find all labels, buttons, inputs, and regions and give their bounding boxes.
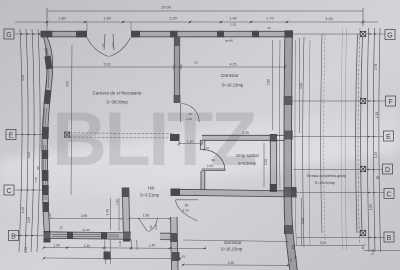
hol east wall lower: [171, 217, 179, 270]
interior vertical dim line 4.05: [71, 45, 72, 195]
south wall: [44, 232, 171, 240]
north wall outline: [41, 31, 293, 37]
terrace corner columns: [360, 31, 365, 235]
grup sanitar stub wall 15: [200, 140, 205, 149]
left column tick dots: [20, 33, 376, 238]
5.50 vertical dim: [301, 198, 303, 245]
left axis letter boxes: [4, 29, 19, 241]
fold light band: [0, 98, 400, 214]
north wall window glazing lines: [53, 33, 252, 35]
row E wall fill: [202, 135, 277, 140]
grup sanitar door: [202, 150, 226, 171]
terrace interior verticals: [303, 34, 322, 247]
interior wall fill: [174, 37, 179, 103]
south wall piers: [67, 232, 107, 239]
wall below bath door: [201, 171, 205, 190]
row E dashed axis across living room: [70, 133, 174, 138]
right axis letter boxes: [383, 30, 396, 243]
dormitor door: [181, 104, 200, 123]
row E: [15, 134, 43, 136]
tick dots on top dim line: [46, 21, 364, 23]
east wall: [284, 37, 297, 270]
north wall fill segments: [177, 31, 285, 37]
4.40 / 2.80 vertical dims top right: [299, 38, 301, 133]
left rotated dim texts: [21, 75, 31, 253]
row B axis across dormitor jos: [183, 240, 288, 242]
top dim line 10.00: [47, 10, 363, 12]
top dimension texts: [58, 5, 332, 27]
west wall fill: [42, 32, 53, 233]
interior dim line 5.00 / 4.25: [47, 64, 285, 70]
row D right: [293, 169, 382, 171]
west wall column marker: [65, 132, 70, 137]
entry double door: [87, 34, 131, 57]
row E wall (grup sanitar north): [202, 135, 277, 140]
left dim column verticals: [19, 29, 22, 252]
hol/dormitor door in row C wall: [176, 200, 199, 221]
south entry door (hol): [138, 218, 158, 232]
top dim line segments: [15, 21, 378, 23]
bath east wall: [270, 141, 276, 189]
south wall glazing: [52, 234, 119, 237]
dim 1.10: [179, 141, 202, 146]
dim 2.20 vertical: [263, 143, 265, 187]
west wall pier blocks: [42, 56, 52, 243]
south wall fill: [44, 232, 131, 238]
west wall window glazing: [44, 48, 49, 200]
right rotated dim texts: [369, 64, 380, 255]
hol west wall: [122, 188, 130, 240]
hol dims: [50, 198, 170, 231]
row C wall fill: [180, 189, 297, 197]
row G: [15, 33, 41, 35]
row C wall: [180, 189, 297, 197]
interior wall living/dormitor: [174, 37, 179, 103]
row C: [15, 189, 43, 191]
terrace outer edge double line: [356, 34, 363, 233]
row F right: [293, 100, 385, 102]
north wall pier blocks: [41, 30, 294, 38]
terrace column axis dashed: [358, 28, 360, 244]
row B: [15, 235, 43, 237]
door edge projection lines: [47, 22, 131, 31]
fold crease shadow right: [344, 188, 366, 234]
west wall: [42, 32, 53, 233]
right dim column verticals: [367, 28, 369, 252]
east wall fill: [284, 37, 297, 270]
bottom dim rows: [44, 240, 400, 266]
